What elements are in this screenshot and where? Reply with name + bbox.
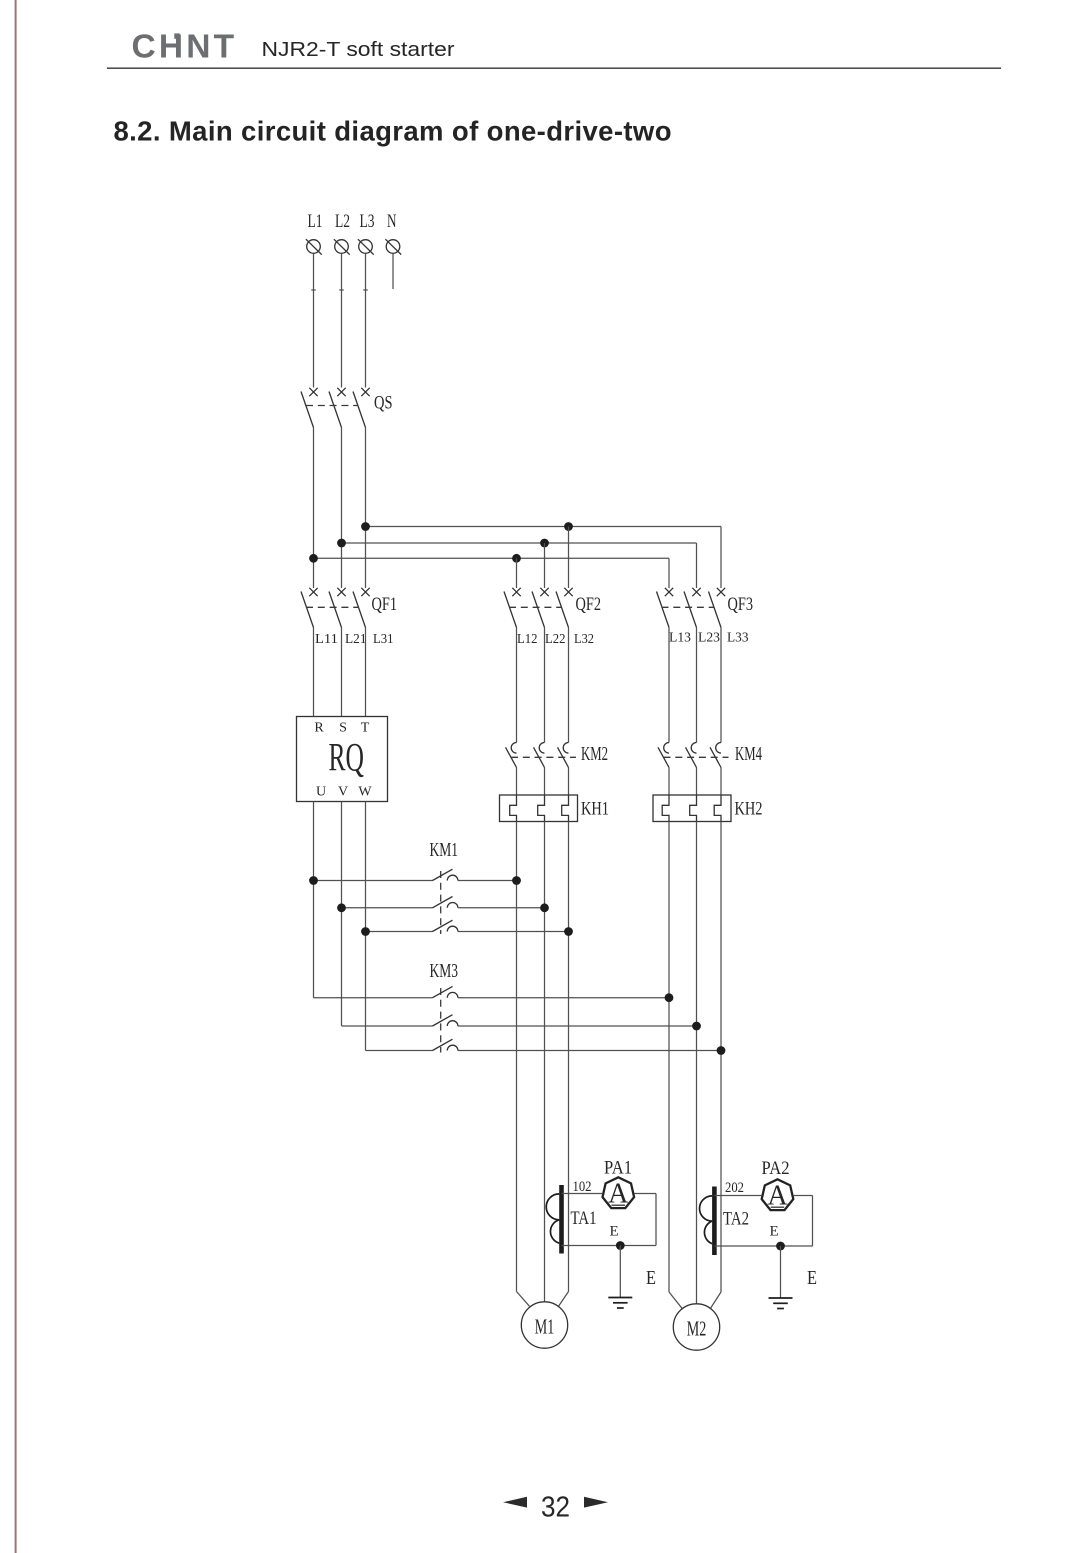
- contactor KM2: [506, 743, 609, 768]
- bypass contactor KM3: [430, 961, 459, 1053]
- wire QF2 pole2 to KM2: [544, 628, 546, 743]
- svg-text:M1: M1: [535, 1315, 555, 1339]
- node E2: [770, 1224, 785, 1251]
- wire KM4 pole3 to overload relay: [720, 768, 722, 796]
- thermal overload relay KH1: [500, 795, 610, 822]
- wire KM4 pole1 to overload relay: [668, 768, 670, 796]
- svg-text:202: 202: [725, 1180, 744, 1196]
- svg-text:PA2: PA2: [762, 1158, 790, 1179]
- disconnect switch QS: [301, 388, 393, 428]
- wire to ground 2: [780, 1246, 782, 1298]
- svg-text:E: E: [807, 1268, 817, 1289]
- KM1 contact pole1: [314, 869, 517, 880]
- wire RQ output V down: [341, 802, 343, 1027]
- wire L3 to QS: [365, 253, 367, 387]
- svg-text:KH1: KH1: [581, 799, 609, 820]
- wire N stub: [392, 253, 394, 289]
- KM1 contact pole3: [366, 920, 569, 931]
- svg-text:E: E: [610, 1224, 619, 1240]
- junction KM3 pole1 right: [665, 993, 674, 1002]
- svg-text:L21: L21: [345, 632, 367, 647]
- svg-text:L33: L33: [727, 631, 749, 646]
- KM3 contact pole1: [314, 986, 670, 997]
- svg-text:PA1: PA1: [604, 1158, 632, 1179]
- svg-text:QS: QS: [374, 393, 393, 414]
- page number: [503, 1492, 608, 1524]
- KM3 contact pole2: [342, 1015, 697, 1026]
- svg-text:RQ: RQ: [329, 735, 365, 780]
- current transformer TA1: [546, 1179, 596, 1254]
- wire PA2 to right: [794, 1195, 813, 1197]
- svg-text:W: W: [358, 785, 372, 800]
- thermal overload relay KH2: [653, 795, 763, 822]
- wire KM2 pole2 to overload relay: [544, 768, 546, 796]
- svg-text:E: E: [770, 1224, 779, 1240]
- svg-text:L3: L3: [360, 211, 375, 232]
- circuit breaker QF3: [657, 588, 754, 646]
- svg-text:L23: L23: [698, 631, 720, 646]
- current transformer TA2: [700, 1180, 749, 1255]
- motor M1: [517, 1292, 569, 1349]
- svg-text:R: R: [314, 721, 324, 736]
- svg-text:M2: M2: [687, 1317, 707, 1341]
- wire QS pole3 down: [365, 428, 367, 589]
- contactor KM4: [658, 743, 762, 768]
- svg-text:TA2: TA2: [723, 1209, 749, 1230]
- wire QF1 pole3 to RQ: [365, 628, 367, 717]
- junction KM1 pole2 left: [337, 903, 346, 912]
- svg-text:KM3: KM3: [430, 961, 459, 982]
- wire QF1 pole1 to RQ: [313, 628, 315, 717]
- svg-text:KM2: KM2: [581, 744, 608, 765]
- junction KM1 pole3 left: [361, 927, 370, 936]
- svg-text:L2: L2: [335, 211, 350, 232]
- terminal L2: [334, 211, 350, 255]
- svg-text:L13: L13: [669, 631, 691, 646]
- wire RQ output U down: [313, 802, 315, 998]
- svg-text:T: T: [361, 721, 370, 736]
- bus phase1 (bottom): [309, 554, 669, 588]
- svg-text:QF2: QF2: [576, 594, 602, 615]
- junction KM3 pole3 right: [717, 1046, 726, 1055]
- wire L2 to QS: [341, 253, 343, 387]
- wire PA1 to right: [635, 1193, 657, 1195]
- bus phase3 (top): [361, 522, 721, 588]
- wire L1 to QS: [313, 253, 315, 387]
- bus phase2 (middle): [337, 539, 696, 588]
- svg-text:8.2. Main circuit diagram of o: 8.2. Main circuit diagram of one-drive-t…: [114, 116, 672, 147]
- motor M2: [669, 1292, 721, 1350]
- wire motor2 line V down: [696, 822, 698, 1293]
- svg-text:KM1: KM1: [430, 840, 459, 861]
- wire motor2 line U down: [668, 822, 670, 1293]
- svg-text:102: 102: [573, 1179, 592, 1195]
- wire TA1 secondary bottom: [562, 1245, 657, 1247]
- svg-text:32: 32: [541, 1492, 570, 1524]
- svg-text:V: V: [338, 785, 348, 800]
- wire motor1 line W down: [568, 822, 570, 1292]
- node E1: [610, 1224, 625, 1250]
- ammeter PA1: [603, 1158, 635, 1210]
- KM1 contact pole2: [342, 897, 545, 908]
- wire to ground 1: [619, 1246, 621, 1298]
- KM3 contact pole3: [366, 1039, 722, 1050]
- svg-text:TA1: TA1: [571, 1208, 597, 1229]
- svg-text:L32: L32: [574, 632, 594, 647]
- wire QS pole1 down: [313, 428, 315, 589]
- svg-text:QF1: QF1: [372, 594, 398, 615]
- ground E2: [769, 1268, 818, 1309]
- wire KM4 pole2 to overload relay: [696, 768, 698, 796]
- wire KM2 pole1 to overload relay: [516, 768, 518, 796]
- wire QF2 pole3 to KM2: [568, 628, 570, 743]
- bypass contactor KM1: [430, 840, 459, 934]
- svg-text:U: U: [316, 785, 326, 800]
- wire QF2 pole1 to KM2: [516, 628, 518, 743]
- terminal L3: [358, 211, 375, 255]
- junction KM1 pole2 right: [540, 903, 549, 912]
- svg-text:KM4: KM4: [735, 744, 762, 765]
- wire motor1 line V down: [544, 822, 546, 1292]
- wire TA1 secondary top: [562, 1193, 603, 1195]
- ground E1: [608, 1268, 656, 1308]
- header rule: [107, 67, 1001, 69]
- CHINT logo: [132, 29, 238, 66]
- circuit breaker QF2: [504, 588, 601, 647]
- svg-text:L12: L12: [517, 632, 538, 647]
- svg-text:KH2: KH2: [735, 799, 763, 820]
- svg-text:S: S: [339, 721, 347, 736]
- wire KM2 pole3 to overload relay: [568, 768, 570, 796]
- wire QF1 pole2 to RQ: [341, 628, 343, 717]
- wire QS pole2 down: [341, 428, 343, 589]
- junction KM1 pole1 left: [309, 876, 318, 885]
- svg-text:L31: L31: [373, 632, 394, 647]
- ammeter PA2: [762, 1158, 794, 1212]
- wire TA2 secondary bottom: [714, 1245, 812, 1247]
- wire QF3 pole3 to KM4: [720, 628, 722, 743]
- terminal L1: [306, 211, 323, 255]
- wire motor1 line U down: [516, 822, 518, 1292]
- junction KM1 pole1 right: [512, 876, 521, 885]
- wire RQ output W down: [365, 802, 367, 1051]
- wire TA2 secondary top: [714, 1195, 761, 1197]
- svg-text:CHNT: CHNT: [132, 29, 238, 66]
- svg-text:N: N: [387, 211, 397, 232]
- svg-text:L22: L22: [545, 632, 566, 647]
- junction KM3 pole2 right: [692, 1022, 701, 1031]
- wire motor2 line W down: [720, 822, 722, 1293]
- soft starter RQ: [297, 717, 388, 802]
- circuit breaker QF1: [301, 588, 397, 647]
- svg-text:L11: L11: [315, 632, 338, 647]
- svg-text:QF3: QF3: [728, 594, 754, 615]
- svg-text:NJR2-T soft starter: NJR2-T soft starter: [262, 38, 455, 61]
- svg-text:E: E: [646, 1268, 656, 1289]
- junction KM1 pole3 right: [564, 927, 573, 936]
- wire QF3 pole2 to KM4: [696, 628, 698, 743]
- svg-text:L1: L1: [308, 211, 323, 232]
- wire QF3 pole1 to KM4: [668, 628, 670, 743]
- terminal N: [385, 211, 401, 255]
